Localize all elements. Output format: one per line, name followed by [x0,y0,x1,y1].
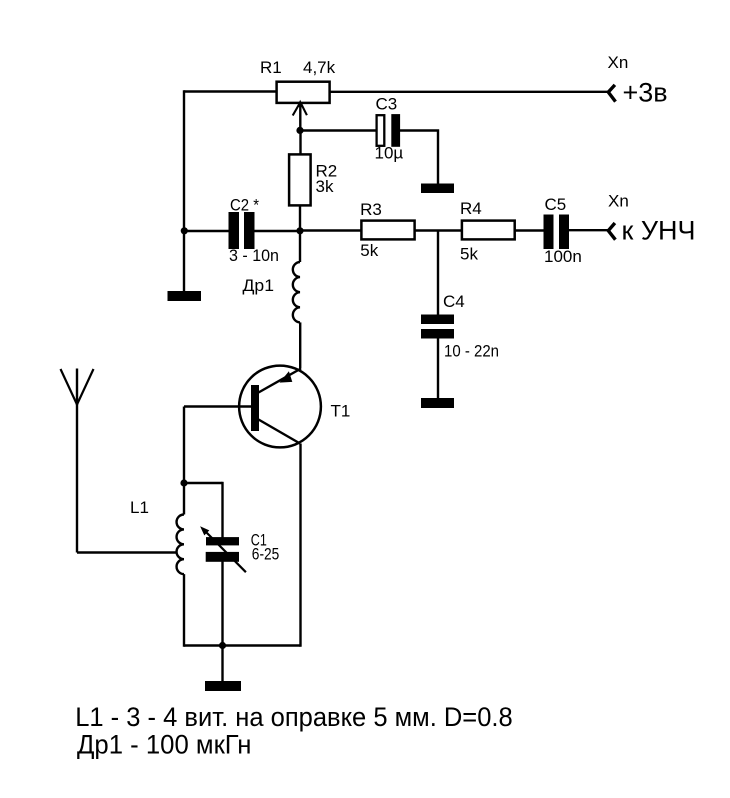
node: C2 left junction [181,227,188,234]
label к УНЧ [622,216,696,246]
wire node to R2 top [299,131,301,155]
capacitor C1 (variable) [200,526,246,572]
label C4 [443,292,465,311]
svg-text:4,7k: 4,7k [303,58,336,77]
node: wiper / R2 / C3 junction [296,127,303,134]
ground (left) [168,291,202,301]
svg-text:C3: C3 [376,95,398,114]
wire C3 to its ground [400,129,438,184]
svg-text:10 - 22n: 10 - 22n [444,342,499,361]
svg-text:6-25: 6-25 [252,545,279,564]
label T1 [331,402,351,421]
wire antenna tap to L1 [77,551,178,553]
label R3 [360,200,382,219]
svg-text:100n: 100n [544,247,582,266]
connector Xn (to AF amp) chevron [608,223,615,240]
label L1 [130,498,149,517]
resistor R4 [462,221,515,240]
svg-text:R1: R1 [260,58,282,77]
svg-text:10µ: 10µ [375,144,404,163]
svg-text:T1: T1 [331,402,351,421]
wire R2 bottom to C2 node [299,206,301,231]
ground (C4) [421,398,454,408]
label 5k (R3) [360,241,378,260]
wire center node to choke [299,231,301,262]
connector Xn (+3v) chevron [608,85,615,102]
capacitor C4 [421,315,454,339]
capacitor C5 [544,215,570,250]
inductor L1 bottom lead [183,574,185,647]
svg-text:Xn: Xn [608,53,629,72]
svg-text:R3: R3 [360,200,382,219]
label note line 2 [77,729,252,759]
wire left vertical base to tank node [183,407,185,484]
svg-text:к УНЧ: к УНЧ [622,216,696,246]
wire left node to C2 [184,230,229,232]
node: R2 / C2 / R3 / choke junction [296,227,303,234]
ground (C3) [421,184,454,194]
resistor R1 (potentiometer body) [277,82,330,103]
inductor Др1 (choke) [293,262,300,322]
label Xn (top) [608,53,629,72]
wire C2 to center node [255,230,301,232]
wire bottom rail [184,644,301,646]
svg-text:Др1: Др1 [243,276,275,295]
label 100n [544,247,582,266]
wire left vertical from C2 node to ground [183,231,185,292]
svg-text:5k: 5k [460,245,478,264]
wire choke to transistor top [299,322,301,368]
wire left vertical from rail to C2 node [183,90,185,231]
svg-text:C2 *: C2 * [230,196,259,215]
label 3k [316,177,334,196]
svg-text:+3в: +3в [623,78,668,108]
label Xn (bottom) [608,192,629,211]
wire top rail right segment to +3v terminal [330,91,609,93]
wire top rail left segment [184,90,277,92]
wire C4 branch from R3-R4 node [437,231,439,316]
wire tank node to C1 branch [184,482,223,484]
label 10 - 22n [444,342,499,361]
wire C1 branch top [221,482,223,538]
svg-text:5k: 5k [360,241,378,260]
svg-text:3 - 10n: 3 - 10n [229,246,279,265]
label 5k (R4) [460,245,478,264]
label Др1 [243,276,275,295]
label R4 [460,199,482,218]
ground (bottom) [205,681,241,691]
capacitor C3 (electrolytic, plus plate hollow) [377,114,400,147]
node: bottom ground junction [219,642,226,649]
capacitor C2 [229,212,255,249]
resistor R3 [361,221,414,240]
label R2 [316,161,338,180]
node: tank circuit top [180,479,187,486]
wire transistor emitter down [299,444,301,647]
svg-text:L1: L1 [130,498,149,517]
wire R3 to R4 through C4 tap [415,229,462,231]
svg-text:L1 - 3 - 4 вит. на оправке 5 м: L1 - 3 - 4 вит. на оправке 5 мм. D=0.8 [75,702,513,732]
inductor L1 top lead [183,483,185,515]
label 6-25 [252,545,279,564]
label +3в [623,78,668,108]
label note line 1 [75,702,513,732]
label C1 [251,531,267,550]
resistor R2 [289,154,311,205]
wire C1 bottom [221,561,223,646]
svg-text:Др1 - 100 мкГн: Др1 - 100 мкГн [77,729,252,759]
wire center node to R3 [300,229,361,231]
transistor T1 [239,366,321,448]
svg-text:C5: C5 [545,195,567,214]
label C3 [376,95,398,114]
label C5 [545,195,567,214]
svg-text:Xn: Xn [608,192,629,211]
wire wiper node to C3 [301,129,377,131]
wire R4 to C5 [515,229,545,231]
wire bottom node to ground [221,646,223,682]
potentiometer R1 wiper arrow [293,100,307,131]
label 10µ [375,144,404,163]
wire base to left vertical [184,405,252,407]
label C2 * [230,196,259,215]
label 4,7k [303,58,336,77]
antenna [61,369,94,405]
wire C4 to ground [437,338,439,399]
svg-text:C4: C4 [443,292,465,311]
wire C5 to output terminal [569,229,609,231]
label 3 - 10n [229,246,279,265]
svg-text:R4: R4 [460,199,482,218]
svg-text:3k: 3k [316,177,334,196]
wire antenna mast [76,404,78,553]
inductor L1 [177,515,184,575]
label R1 [260,58,282,77]
